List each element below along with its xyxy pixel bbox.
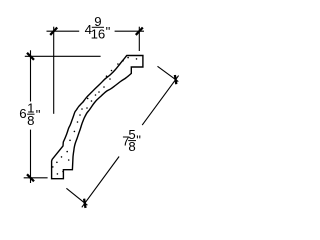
svg-text:": " — [136, 132, 141, 147]
svg-text:": " — [106, 24, 111, 39]
svg-text:6: 6 — [19, 106, 26, 121]
svg-text:8: 8 — [27, 113, 34, 128]
svg-text:16: 16 — [91, 26, 106, 41]
svg-text:8: 8 — [128, 139, 135, 154]
svg-text:": " — [36, 107, 41, 122]
